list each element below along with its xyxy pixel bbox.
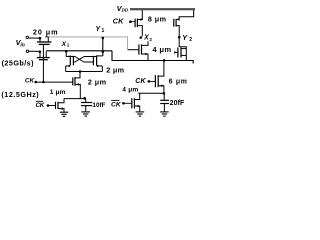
power rail VDD <box>130 8 195 10</box>
ground (under C1) <box>81 112 90 116</box>
transistor M1 20um sampling switch (top) <box>37 37 51 45</box>
svg-text:1: 1 <box>102 28 105 34</box>
node dot M1 left <box>39 37 42 40</box>
transistor M11 6um <box>155 61 164 94</box>
transistor M12 discharge 4um <box>132 93 140 111</box>
wire CK right to M11 gate <box>149 80 156 82</box>
svg-text:DD: DD <box>122 8 129 13</box>
transistor M4 cross-coupled right 2um <box>93 55 102 71</box>
ground (under C2) <box>160 112 169 116</box>
node CKbar right bullet <box>122 102 125 105</box>
svg-text:(12.5GHz): (12.5GHz) <box>1 90 39 99</box>
wire CK bullet to M8 gate <box>130 21 135 23</box>
svg-text:CK: CK <box>25 78 35 85</box>
node dot Y1 on rail <box>102 50 105 53</box>
wire reset node <box>64 98 86 100</box>
wire Vin- to M2 <box>29 50 40 52</box>
wire CKbar to gate <box>48 105 56 107</box>
svg-text:20 μm: 20 μm <box>33 27 59 36</box>
capacitor C2 20fF <box>160 93 169 112</box>
svg-text:2 μm: 2 μm <box>88 78 107 87</box>
svg-text:CK: CK <box>36 102 45 109</box>
wire CKbar right to M12 gate <box>123 102 131 104</box>
svg-text:10fF: 10fF <box>92 102 105 109</box>
capacitor C1 10fF <box>81 99 92 112</box>
svg-text:CK: CK <box>135 78 146 85</box>
svg-text:X: X <box>143 35 149 42</box>
node Y1 dot <box>102 37 105 40</box>
svg-text:2: 2 <box>189 37 192 43</box>
svg-text:CK: CK <box>111 101 122 108</box>
wire Vin+ to M1 <box>29 37 40 39</box>
node dot second stage <box>163 59 166 62</box>
ground (under M6) <box>60 112 69 116</box>
svg-text:2 μm: 2 μm <box>106 66 124 75</box>
transistor M2 20um sampling switch (bottom) <box>37 51 50 59</box>
wire cross-couple B (M4 drain to M3 gate) <box>73 57 96 63</box>
node X2 bullet <box>140 36 143 39</box>
transistor M3 cross-coupled left 2um <box>66 51 74 71</box>
input terminal Vin- <box>26 50 28 52</box>
wire cross-couple A (M3 drain to M4 gate) <box>66 57 93 63</box>
svg-text:1 μm: 1 μm <box>50 89 66 96</box>
node CK bullet <box>35 81 38 84</box>
transistor M8 precharge PMOS 8um <box>135 10 142 36</box>
node dot M2 left <box>39 51 42 54</box>
svg-text:2: 2 <box>149 37 152 42</box>
svg-text:X: X <box>61 41 67 48</box>
transistor M6 1um reset CKbar <box>56 99 65 112</box>
wire gray net M1 source to Y1 to pass-gate M7 <box>48 37 127 50</box>
svg-text:4 μm: 4 μm <box>122 87 138 94</box>
svg-text:(25Gb/s): (25Gb/s) <box>2 58 35 67</box>
node Y2 dot <box>178 36 181 39</box>
wire CK to tail gate <box>36 81 73 83</box>
node dot cap junction <box>163 92 166 95</box>
node CK right bullet <box>148 80 151 83</box>
ground (under M12) <box>136 112 145 116</box>
node dot CK gate junction <box>42 81 45 84</box>
node CK top bullet <box>129 20 132 23</box>
wire CK gate lead of M1/M2 <box>42 44 44 82</box>
svg-text:CK: CK <box>113 17 125 26</box>
transistor M10 output switch 4um <box>174 47 186 61</box>
node X1 dot <box>65 50 68 53</box>
wire Y1 vertical <box>102 37 104 56</box>
transistor M7 pass 2um <box>139 41 148 60</box>
node dot reset <box>83 97 86 100</box>
svg-text:20fF: 20fF <box>170 100 185 107</box>
wire rail corner to second stage <box>112 51 193 64</box>
svg-text:8 μm: 8 μm <box>148 14 167 23</box>
svg-text:in: in <box>20 42 24 48</box>
svg-text:4 μm: 4 μm <box>152 45 171 54</box>
svg-text:6 μm: 6 μm <box>169 79 188 86</box>
transistor M5 tail 2um <box>73 72 81 99</box>
wire cc sources <box>66 71 103 73</box>
input terminal Vin+ <box>26 36 28 38</box>
wire X1 rail <box>46 50 112 52</box>
transistor M9 precharge PMOS right <box>174 10 194 47</box>
wire discharge node <box>138 92 164 94</box>
wire pass gate lead (black) <box>128 49 139 51</box>
node dot tail junction <box>79 70 82 73</box>
node CKbar bullet <box>47 104 50 107</box>
svg-text:1: 1 <box>67 43 70 48</box>
